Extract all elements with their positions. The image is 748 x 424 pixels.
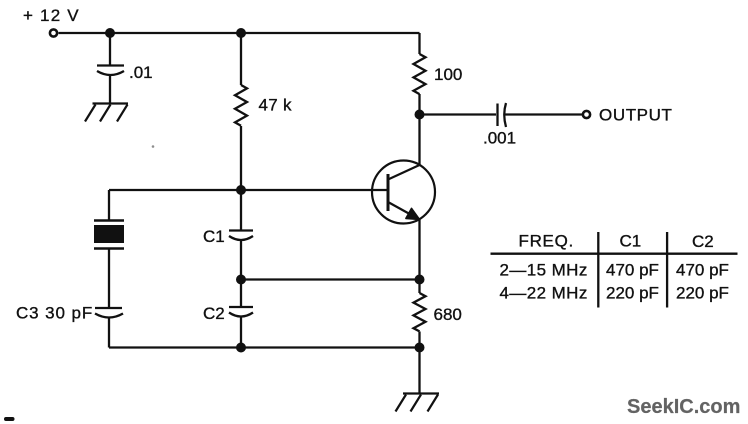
ground (bottom) xyxy=(396,394,440,412)
wire: C1/C2 node to emitter node xyxy=(241,278,420,280)
label C2 xyxy=(203,304,225,323)
node: bottom rail / C2 junction xyxy=(236,343,246,353)
wire: bypass branch upper xyxy=(109,33,111,65)
ground (top left) xyxy=(85,104,128,122)
wire: 680 lower lead xyxy=(418,332,420,348)
value label 100 xyxy=(434,65,462,84)
capacitor C2 xyxy=(229,307,253,317)
value label C3 30 pF xyxy=(16,304,93,323)
wire: +12V top rail xyxy=(59,32,420,34)
value label .001 xyxy=(483,129,516,148)
wire: C2 upper lead xyxy=(240,280,242,308)
wire: output coupling left segment xyxy=(420,113,497,115)
wire: C3 to bottom rail corner xyxy=(108,318,110,348)
svg-text:C2: C2 xyxy=(692,232,714,251)
node: base junction xyxy=(236,185,246,195)
node: top rail / bypass cap junction xyxy=(105,28,115,38)
terminal OUTPUT xyxy=(583,111,590,118)
value label .01 xyxy=(129,63,153,82)
watermark SeekIC.com xyxy=(627,396,740,418)
wire: base wire xyxy=(109,189,388,191)
svg-text:220 pF: 220 pF xyxy=(606,284,659,303)
capacitor .01 xyxy=(97,66,124,76)
svg-text:2—15 MHz: 2—15 MHz xyxy=(500,261,588,280)
node: emitter / 680 junction xyxy=(415,275,425,285)
capacitor C3 xyxy=(95,308,123,318)
wire: crystal branch upper corner xyxy=(108,190,110,221)
svg-text:100: 100 xyxy=(434,65,462,84)
scan speck xyxy=(152,145,155,148)
resistor R2 100 xyxy=(414,54,426,94)
node: collector / output junction xyxy=(415,110,425,120)
svg-text:OUTPUT: OUTPUT xyxy=(599,106,672,125)
svg-text:C3 30 pF: C3 30 pF xyxy=(16,304,93,323)
svg-text:4—22 MHz: 4—22 MHz xyxy=(500,284,588,303)
node: C1/C2 junction xyxy=(236,275,246,285)
svg-text:+ 12 V: + 12 V xyxy=(23,6,80,25)
table: frequency / capacitor values xyxy=(491,232,738,308)
wire: 680 upper lead xyxy=(418,280,420,294)
svg-text:220 pF: 220 pF xyxy=(676,284,729,303)
svg-text:C2: C2 xyxy=(203,304,225,323)
wire: 47k upper lead xyxy=(240,33,242,85)
wire: C2 lower lead xyxy=(240,317,242,348)
capacitor C1 xyxy=(229,231,253,241)
wire: bottom rail xyxy=(109,346,420,348)
svg-text:FREQ.: FREQ. xyxy=(519,232,574,251)
label +12V xyxy=(23,6,80,25)
node: bottom rail / 680 junction xyxy=(415,343,425,353)
svg-text:680: 680 xyxy=(434,305,462,324)
resistor R3 680 xyxy=(414,293,426,331)
svg-text:.001: .001 xyxy=(483,129,516,148)
transistor Q1 xyxy=(372,161,435,224)
wire: bypass branch lower xyxy=(109,76,111,104)
svg-text:C1: C1 xyxy=(620,232,642,251)
wire: to bottom ground xyxy=(418,348,420,394)
value label 680 xyxy=(434,305,462,324)
wire: C1 upper lead xyxy=(240,190,242,230)
capacitor .001 coupling xyxy=(498,103,507,127)
label OUTPUT xyxy=(599,106,672,125)
terminal +12V input xyxy=(50,29,57,36)
wire: 100 ohm lower lead to collector node xyxy=(418,94,420,115)
value label 47 k xyxy=(259,96,293,115)
svg-text:470 pF: 470 pF xyxy=(606,261,659,280)
wire: C1 lower lead xyxy=(240,241,242,280)
svg-text:47 k: 47 k xyxy=(259,96,293,115)
svg-text:C1: C1 xyxy=(203,227,225,246)
resistor R1 47k xyxy=(235,85,247,126)
svg-text:SeekIC.com: SeekIC.com xyxy=(627,396,740,418)
node: top rail / 47k junction xyxy=(236,28,246,38)
svg-text:470 pF: 470 pF xyxy=(676,261,729,280)
wire: collector lead into transistor xyxy=(418,115,420,166)
wire: 47k lower lead to base node xyxy=(240,126,242,190)
wire: emitter lead down xyxy=(418,220,420,280)
crystal Y1 xyxy=(94,221,124,249)
wire: crystal to C3 xyxy=(108,249,110,308)
svg-text:.01: .01 xyxy=(129,63,153,82)
wire: output coupling right segment xyxy=(505,113,582,115)
scan artifact mark bottom-left xyxy=(4,417,15,421)
wire: top rail corner down to 100 ohm xyxy=(418,33,420,54)
label C1 xyxy=(203,227,225,246)
